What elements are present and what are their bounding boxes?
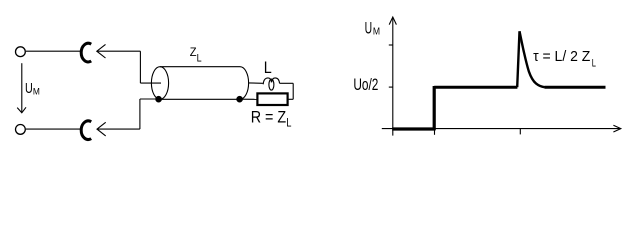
svg-text:L: L bbox=[286, 117, 292, 130]
inductor L (two humps + loop) bbox=[263, 78, 279, 90]
svg-text:M: M bbox=[33, 87, 40, 98]
x-axis tick at spike bbox=[519, 129, 521, 134]
wire: coax centre to inductor bbox=[248, 82, 263, 84]
arrow into top hook bbox=[97, 44, 141, 58]
waveform Uo/2 level after spike bbox=[545, 86, 606, 89]
graph y-axis bbox=[392, 18, 394, 136]
svg-text:U: U bbox=[365, 19, 373, 37]
x-axis arrowhead bbox=[613, 125, 620, 132]
svg-text:L: L bbox=[592, 58, 596, 70]
svg-text:R = Z: R = Z bbox=[251, 109, 286, 127]
waveform step edge bbox=[433, 86, 436, 130]
svg-text:U: U bbox=[25, 80, 33, 97]
label tau = L/ 2 Z_L bbox=[533, 48, 596, 70]
coax cable left end ellipse bbox=[151, 67, 168, 100]
terminal circle bottom-left bbox=[16, 124, 26, 134]
svg-text:τ = L/ 2 Z: τ = L/ 2 Z bbox=[533, 48, 590, 65]
svg-text:L: L bbox=[197, 53, 202, 65]
waveform spike exponential decay bbox=[520, 31, 545, 87]
label L bbox=[264, 58, 272, 77]
label U_M bbox=[25, 80, 40, 98]
wire: top corner down bbox=[139, 51, 141, 83]
resistor R (box) bbox=[257, 93, 287, 105]
wire: right corner down to resistor bbox=[292, 83, 294, 99]
y-axis arrowhead bbox=[389, 17, 396, 25]
junction dot right (shield) bbox=[236, 96, 243, 103]
probe hook top (C shape) bbox=[81, 43, 91, 62]
x-axis tick at step bbox=[434, 129, 436, 135]
terminal circle top-left bbox=[16, 47, 26, 57]
svg-text:M: M bbox=[373, 27, 380, 38]
y-axis tick upper bbox=[389, 44, 393, 46]
voltage arrow U_M (points down) bbox=[17, 63, 26, 113]
y-axis tick at Uo/2 bbox=[389, 86, 393, 88]
wire: into coax centre conductor bbox=[140, 82, 161, 84]
wire: to coax shield bbox=[140, 98, 157, 100]
coax cable top line bbox=[160, 66, 240, 68]
svg-text:L: L bbox=[264, 58, 272, 77]
label R = Z_L bbox=[251, 109, 292, 130]
wire: inductor to right corner bbox=[280, 82, 293, 84]
label Uo/2 bbox=[353, 76, 378, 94]
arrow into bottom hook bbox=[97, 122, 140, 136]
graph x-axis bbox=[382, 128, 621, 130]
svg-text:Uo/2: Uo/2 bbox=[353, 76, 378, 94]
probe hook bottom (C shape) bbox=[81, 121, 91, 140]
label U_M (graph) bbox=[365, 19, 381, 37]
waveform spike rising edge bbox=[517, 31, 519, 87]
wire: shield dot to resistor left terminal bbox=[240, 98, 258, 100]
junction dot left (shield) bbox=[155, 96, 162, 103]
coax cable bottom line bbox=[160, 98, 240, 100]
waveform Uo/2 level before spike bbox=[434, 86, 517, 89]
wire: into resistor right terminal bbox=[288, 98, 293, 100]
wire: top-left terminal to top hook bbox=[26, 50, 81, 52]
wire: bottom corner up bbox=[139, 99, 141, 129]
label Z_L on coax bbox=[190, 45, 202, 64]
wire: bottom-left terminal to bottom hook bbox=[26, 128, 82, 130]
waveform zero level segment bbox=[392, 127, 435, 130]
coax cable right end cap arc bbox=[240, 67, 249, 100]
